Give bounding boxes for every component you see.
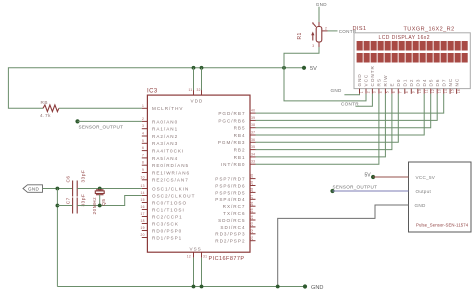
- svg-text:RC1/T1OSI: RC1/T1OSI: [152, 207, 185, 212]
- svg-text:18: 18: [141, 219, 145, 223]
- svg-text:IC3: IC3: [147, 89, 158, 95]
- svg-text:SENSOR_OUTPUT: SENSOR_OUTPUT: [333, 184, 378, 189]
- svg-text:D5: D5: [428, 79, 433, 87]
- svg-text:20: 20: [141, 233, 145, 237]
- svg-text:PGM/RB3: PGM/RB3: [218, 140, 246, 145]
- svg-text:5V: 5V: [310, 66, 317, 72]
- svg-text:RA2/AN2: RA2/AN2: [152, 134, 178, 139]
- svg-text:SENSOR_OUTPUT: SENSOR_OUTPUT: [79, 124, 124, 129]
- svg-text:17: 17: [141, 212, 145, 216]
- svg-text:VCC: VCC: [364, 74, 369, 87]
- svg-text:MCLR/THV: MCLR/THV: [152, 106, 183, 111]
- svg-text:VDD: VDD: [191, 98, 204, 103]
- LCD character cells row 2: [357, 53, 468, 63]
- svg-text:11: 11: [189, 88, 193, 92]
- svg-text:GND: GND: [316, 2, 327, 7]
- svg-text:RD2/PSP2: RD2/PSP2: [215, 239, 245, 244]
- svg-text:25: 25: [250, 208, 254, 212]
- svg-text:28: 28: [250, 188, 254, 192]
- svg-text:PIC16F877P: PIC16F877P: [209, 256, 245, 262]
- svg-text:OSC1/CLKIN: OSC1/CLKIN: [152, 186, 189, 191]
- svg-text:RB5: RB5: [234, 126, 246, 131]
- wire LCD R/W pin5 to IC pin34: [256, 94, 386, 157]
- svg-text:15: 15: [141, 198, 145, 202]
- wire GND tag to crystal node: [43, 188, 73, 190]
- capacitor C6: [65, 170, 85, 197]
- IC3 left pins group B oscillator and RC RD: [141, 184, 196, 240]
- svg-text:C7: C7: [65, 197, 70, 204]
- svg-text:5: 5: [142, 139, 144, 143]
- svg-text:RD1/PSP1: RD1/PSP1: [152, 235, 182, 240]
- wire sensor GND to rail: [278, 205, 409, 287]
- svg-text:3: 3: [142, 124, 144, 128]
- svg-text:6: 6: [392, 91, 396, 93]
- IC3 left pins group A: [141, 104, 191, 183]
- svg-text:22: 22: [250, 229, 254, 233]
- svg-text:34: 34: [251, 152, 255, 156]
- svg-text:38: 38: [251, 123, 255, 127]
- svg-text:RE2/CS/AN7: RE2/CS/AN7: [152, 178, 189, 183]
- wire LCD D7 pin14 to IC pin40: [256, 94, 444, 113]
- svg-text:10: 10: [418, 89, 422, 93]
- svg-text:RS: RS: [377, 78, 382, 86]
- svg-text:27: 27: [250, 194, 254, 198]
- svg-text:8: 8: [405, 91, 409, 93]
- svg-text:GND: GND: [415, 203, 426, 208]
- svg-text:RD0/PSP0: RD0/PSP0: [152, 228, 182, 233]
- svg-text:RX/RC7: RX/RC7: [223, 204, 246, 209]
- resistor RB: [40, 100, 59, 118]
- wire LCD GND pin1 with label: [331, 88, 360, 95]
- wire C6 to OSC1 pin13: [77, 188, 142, 190]
- svg-text:PSP5/RD5: PSP5/RD5: [215, 190, 245, 195]
- svg-text:37: 37: [251, 131, 255, 135]
- junction sensor gnd rail dot: [276, 285, 280, 289]
- svg-text:23: 23: [250, 222, 254, 226]
- svg-text:R1: R1: [297, 32, 303, 39]
- svg-text:D3: D3: [416, 79, 421, 87]
- crystal Q5 20MHz: [92, 189, 106, 215]
- svg-text:33pF: 33pF: [80, 194, 85, 207]
- svg-text:RA3/AN3: RA3/AN3: [152, 141, 178, 146]
- svg-text:RB2: RB2: [234, 148, 246, 153]
- svg-text:RA1/AN1: RA1/AN1: [152, 127, 178, 132]
- svg-text:40: 40: [251, 109, 255, 113]
- svg-text:RB4: RB4: [234, 133, 246, 138]
- svg-text:OSC2/CLKOUT: OSC2/CLKOUT: [152, 193, 195, 198]
- svg-text:R/W: R/W: [383, 75, 388, 87]
- svg-text:5: 5: [386, 91, 390, 93]
- svg-text:RE1/WR/AN6: RE1/WR/AN6: [152, 170, 190, 175]
- svg-text:RC2/CCP1: RC2/CCP1: [152, 214, 183, 219]
- junction VSS rail dots: [192, 285, 204, 289]
- junction dot left bottom: [56, 204, 60, 208]
- svg-text:GND: GND: [311, 285, 323, 291]
- svg-text:RA4/T0CKI: RA4/T0CKI: [152, 149, 184, 154]
- junction dot crystal top: [98, 187, 102, 191]
- svg-text:D4: D4: [422, 79, 427, 87]
- wire bottom ground rail: [57, 286, 305, 288]
- svg-text:PSP4/RD4: PSP4/RD4: [215, 197, 245, 202]
- svg-text:7: 7: [399, 91, 403, 93]
- ground GND label above trimmer R1: [316, 2, 327, 22]
- wire LCD E pin6 to IC pin35: [256, 94, 392, 150]
- svg-text:RA0/AN0: RA0/AN0: [152, 119, 178, 124]
- svg-text:31: 31: [203, 255, 207, 259]
- wire LCD D6 pin13 to IC pin39: [256, 94, 438, 121]
- wire trimmer pin3 to 5V rail and LCD VCC: [284, 47, 366, 101]
- wire sensor output blue: [333, 190, 409, 192]
- trimmer R1: [297, 21, 328, 47]
- microcontroller IC3 PIC16F877P: [147, 89, 250, 262]
- svg-text:RC3/SCK: RC3/SCK: [152, 221, 179, 226]
- svg-text:CONTR: CONTR: [370, 65, 375, 86]
- wire top 5V rail: [8, 68, 304, 109]
- svg-text:16: 16: [141, 205, 145, 209]
- svg-text:D2: D2: [409, 79, 414, 87]
- svg-text:VCC_5V: VCC_5V: [416, 175, 436, 180]
- svg-text:24: 24: [250, 215, 254, 219]
- wire VDD pins to rail: [194, 68, 202, 91]
- svg-text:SDI/RC4: SDI/RC4: [220, 225, 245, 230]
- svg-text:36: 36: [251, 138, 255, 142]
- svg-text:1: 1: [312, 21, 314, 25]
- svg-text:LCD DISPLAY 16x2: LCD DISPLAY 16x2: [379, 35, 430, 41]
- svg-text:Q5: Q5: [101, 198, 106, 205]
- svg-text:26: 26: [250, 201, 254, 205]
- svg-text:16: 16: [457, 89, 461, 93]
- svg-text:4.7k: 4.7k: [40, 113, 51, 118]
- LCD character cells row 1: [357, 41, 468, 51]
- svg-text:RB: RB: [41, 100, 49, 105]
- svg-text:D0: D0: [396, 79, 401, 87]
- svg-text:13: 13: [141, 184, 145, 188]
- svg-text:29: 29: [250, 181, 254, 185]
- svg-text:6: 6: [142, 146, 144, 150]
- node 5V supply top: [302, 66, 317, 72]
- svg-text:14: 14: [444, 89, 448, 93]
- svg-text:4: 4: [142, 132, 144, 136]
- svg-text:E: E: [390, 82, 395, 86]
- svg-text:12: 12: [431, 89, 435, 93]
- svg-text:30: 30: [250, 174, 254, 178]
- svg-text:4: 4: [379, 91, 383, 93]
- svg-text:CONTR: CONTR: [341, 101, 359, 106]
- node SENSOR_OUTPUT at sensor: [330, 184, 377, 193]
- svg-text:1: 1: [360, 91, 364, 93]
- svg-text:15: 15: [450, 89, 454, 93]
- svg-text:GND: GND: [331, 88, 342, 93]
- svg-text:33pF: 33pF: [80, 170, 85, 183]
- svg-text:33: 33: [251, 160, 255, 164]
- LCD pin names: [357, 65, 459, 86]
- svg-text:21: 21: [250, 236, 254, 240]
- svg-text:3: 3: [312, 44, 314, 48]
- junction dot crystal bottom: [98, 204, 102, 208]
- wire left vertical to bottom rail: [56, 189, 58, 287]
- svg-text:9: 9: [412, 91, 416, 93]
- svg-text:2: 2: [366, 91, 370, 93]
- svg-text:10: 10: [141, 175, 145, 179]
- wire sensor output to RA0 pin2: [78, 120, 142, 122]
- svg-text:8: 8: [142, 161, 144, 165]
- svg-text:PSP7/RD7: PSP7/RD7: [215, 177, 245, 182]
- junction trimmer/VCC rail dot: [282, 66, 286, 70]
- wire C7 right to jog: [77, 196, 142, 206]
- node 5V supply at sensor: [365, 172, 376, 179]
- svg-text:14: 14: [141, 191, 145, 195]
- pulse sensor module: [409, 162, 472, 232]
- svg-text:DIS1: DIS1: [353, 26, 367, 32]
- wire C7 branch to OSC2 pin14: [57, 205, 72, 207]
- capacitor C7: [65, 194, 85, 214]
- svg-text:PGC/RB6: PGC/RB6: [218, 118, 245, 123]
- svg-text:RC0/T1OSO: RC0/T1OSO: [152, 200, 187, 205]
- IC3 VSS pin stubs 12 31: [187, 252, 207, 258]
- svg-text:20MHz: 20MHz: [92, 197, 97, 215]
- svg-text:GND: GND: [28, 187, 39, 192]
- svg-text:9: 9: [142, 168, 144, 172]
- svg-text:NC: NC: [454, 78, 459, 87]
- junction dot left top: [56, 187, 60, 191]
- wire LCD D5 pin12 to IC pin38: [256, 94, 431, 128]
- svg-text:C6: C6: [65, 175, 70, 182]
- svg-text:32: 32: [197, 88, 201, 92]
- svg-text:5V: 5V: [365, 172, 372, 178]
- svg-text:TX/RC6: TX/RC6: [223, 211, 245, 216]
- wire LCD D4 pin11 to IC pin37: [256, 94, 425, 135]
- svg-text:1: 1: [142, 104, 144, 108]
- svg-text:PGD/RB7: PGD/RB7: [218, 111, 245, 116]
- svg-text:RD3/PSP3: RD3/PSP3: [215, 232, 245, 237]
- wire RB to MCLR pin1: [59, 107, 142, 109]
- svg-text:12: 12: [187, 255, 191, 259]
- wire LCD CONTR pin3 with label: [341, 94, 372, 107]
- svg-text:11: 11: [425, 89, 429, 93]
- svg-text:2: 2: [142, 117, 144, 121]
- svg-text:VSS: VSS: [190, 246, 202, 251]
- svg-text:GND: GND: [357, 73, 362, 86]
- svg-text:13: 13: [438, 89, 442, 93]
- svg-text:Pulse_Sensor-SEN-11574: Pulse_Sensor-SEN-11574: [416, 222, 469, 227]
- IC3 right pins RD RC port: [215, 174, 255, 244]
- svg-text:RB1: RB1: [234, 155, 246, 160]
- svg-text:19: 19: [141, 226, 145, 230]
- svg-text:35: 35: [251, 145, 255, 149]
- svg-text:39: 39: [251, 116, 255, 120]
- IC3 right pins RB port: [218, 109, 256, 168]
- wire trimmer wiper CONTR: [328, 29, 357, 34]
- svg-text:PSP6/RD6: PSP6/RD6: [215, 183, 245, 188]
- node SENSOR_OUTPUT left: [75, 119, 123, 129]
- wire sensor VCC red: [373, 176, 408, 178]
- svg-text:TUXGR_16X2_R2: TUXGR_16X2_R2: [404, 26, 455, 32]
- wire LCD D0 pin7 to IC pin36: [256, 94, 399, 143]
- ground tag GND left: [23, 185, 43, 193]
- node GND supply bottom: [303, 284, 324, 291]
- IC3 VDD pin stubs 11 32: [189, 88, 202, 95]
- svg-text:D6: D6: [435, 79, 440, 87]
- svg-text:RE0/RD/AN5: RE0/RD/AN5: [152, 163, 189, 168]
- svg-text:2: 2: [325, 26, 327, 30]
- svg-text:D7: D7: [441, 79, 446, 87]
- svg-text:Output: Output: [416, 189, 432, 194]
- junction VDD rail dots: [192, 66, 204, 70]
- svg-text:D1: D1: [403, 79, 408, 87]
- svg-text:7: 7: [142, 153, 144, 157]
- LCD display DIS1: [353, 26, 471, 89]
- svg-text:NC: NC: [448, 78, 453, 87]
- wire LCD RS pin4 to IC pin33: [256, 94, 379, 164]
- LCD pin stubs and numbers: [360, 89, 461, 94]
- svg-text:3: 3: [373, 91, 377, 93]
- svg-text:SDO/RC5: SDO/RC5: [218, 218, 245, 223]
- wire VSS pins to bottom rail: [194, 258, 202, 287]
- svg-text:RA5/AN4: RA5/AN4: [152, 156, 178, 161]
- svg-text:INT/RB0: INT/RB0: [221, 162, 246, 167]
